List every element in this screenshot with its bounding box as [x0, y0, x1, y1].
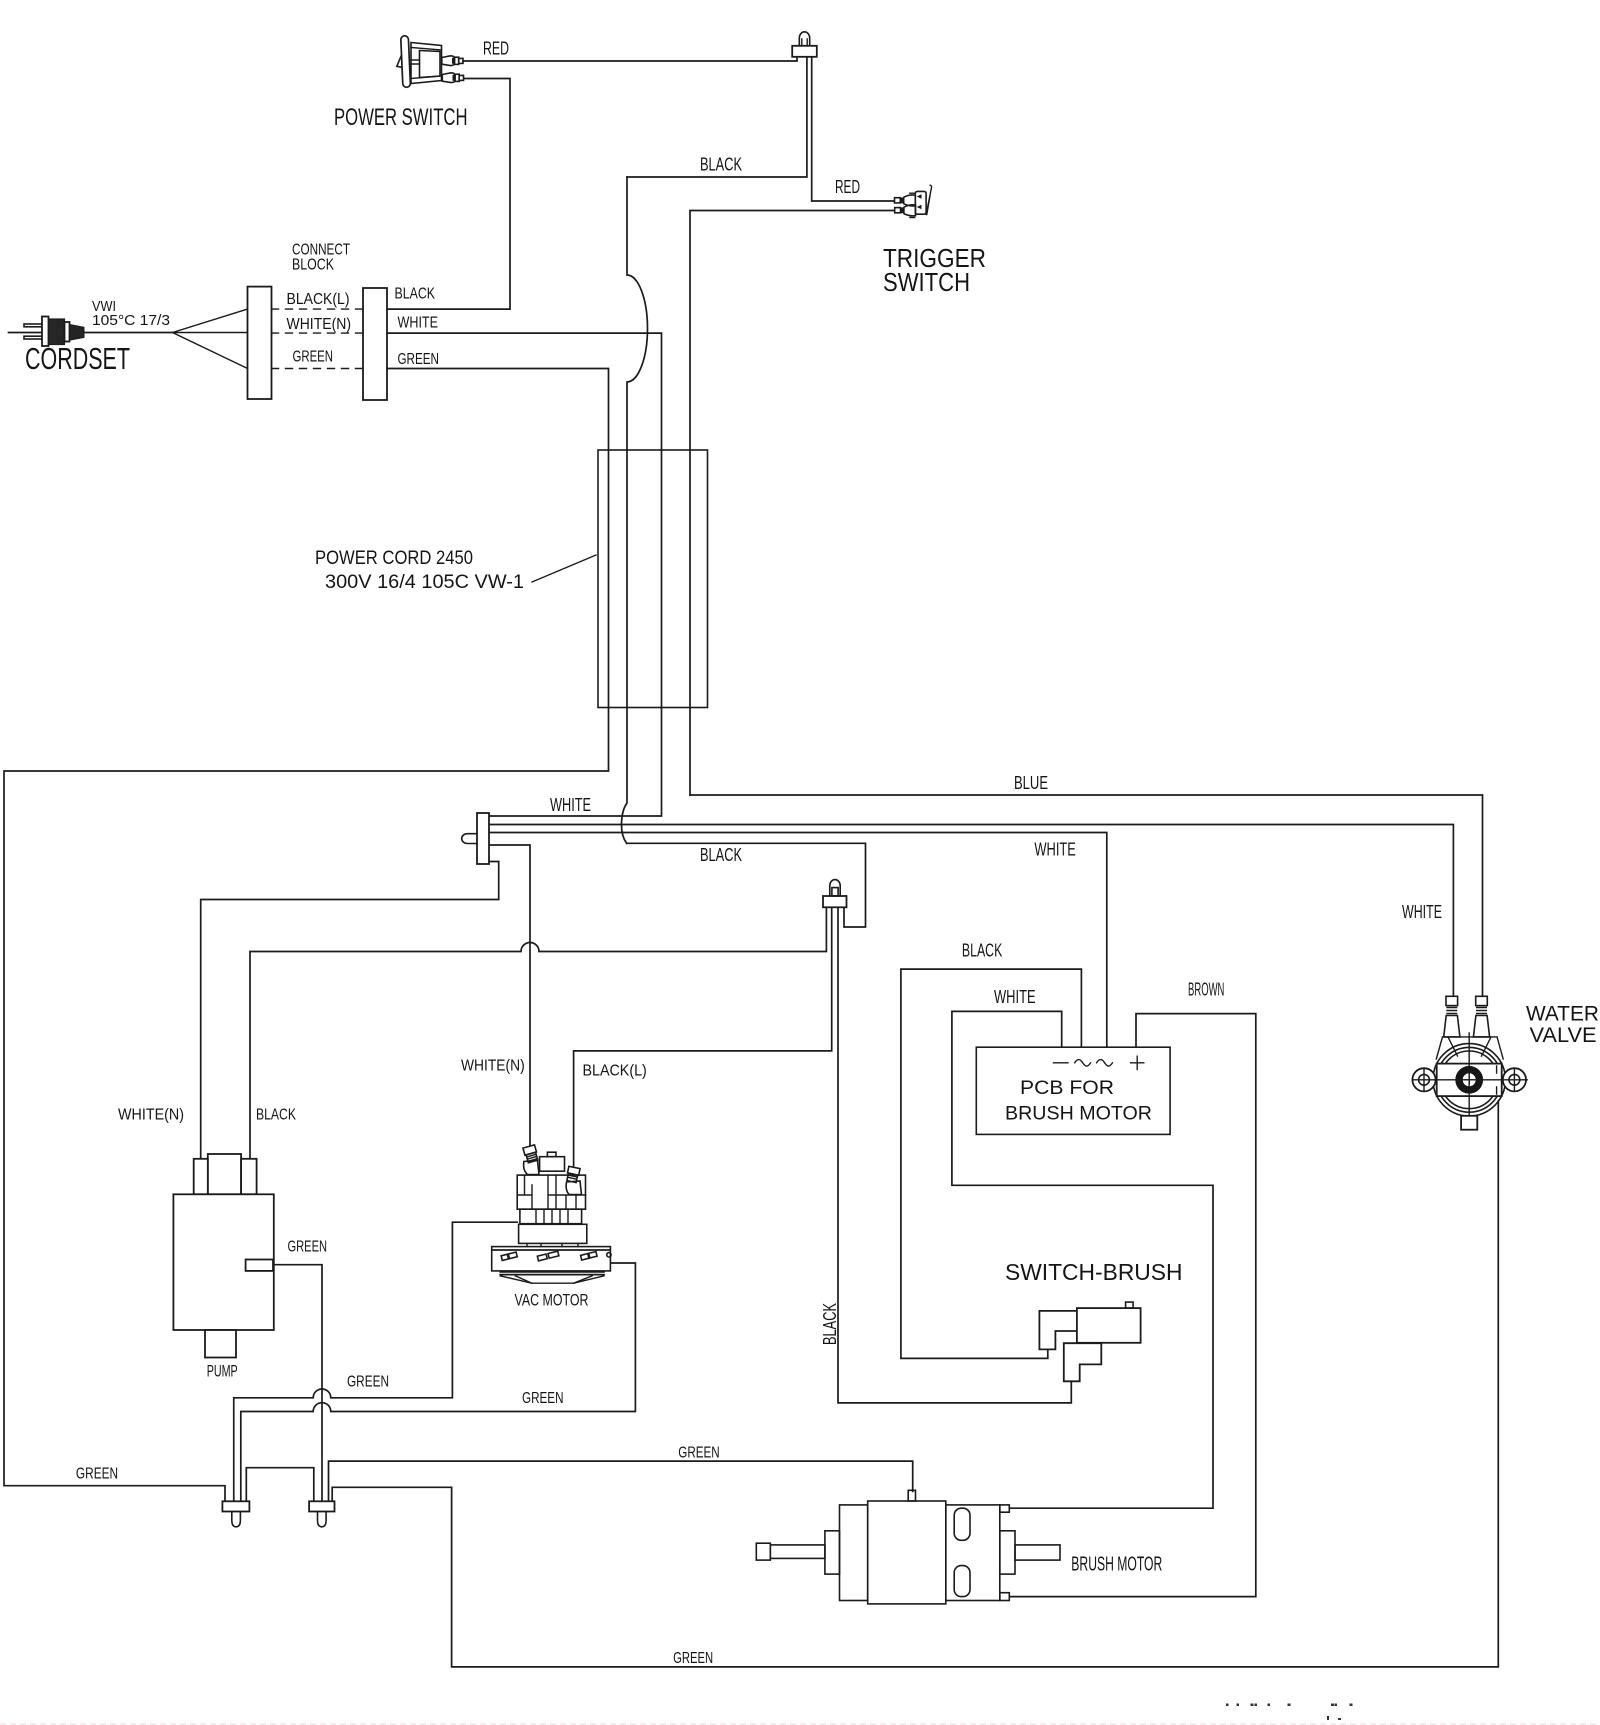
- svg-text:SWITCH: SWITCH: [883, 267, 970, 297]
- wire BLACK: mid plug cable to switch-brush: [838, 908, 1071, 1403]
- wire WHITE: PCB to brush motor: [952, 1011, 1213, 1508]
- ground plug GA: [222, 1501, 249, 1527]
- PCB dc symbol: [1054, 1062, 1069, 1064]
- svg-text:POWER SWITCH: POWER SWITCH: [334, 104, 468, 131]
- connect block right half: [363, 288, 387, 400]
- power cord sleeve rectangle: [598, 450, 708, 708]
- wire WHITE: connect block to white bus: [388, 333, 662, 816]
- wire GREEN: plug A pin1 to vac motor left (hops pump green): [234, 1222, 517, 1501]
- wire GREEN: connect block to left edge run: [4, 369, 609, 1502]
- svg-text:BRUSH MOTOR: BRUSH MOTOR: [1005, 1103, 1152, 1125]
- svg-text:GREEN: GREEN: [347, 1374, 389, 1391]
- svg-text:BROWN: BROWN: [1188, 980, 1224, 1000]
- wire BLUE: trigger run to water valve: [690, 795, 1483, 996]
- svg-text:WHITE: WHITE: [1402, 902, 1442, 922]
- svg-text:BLACK(L): BLACK(L): [583, 1063, 647, 1080]
- svg-text:WHITE(N): WHITE(N): [461, 1058, 525, 1075]
- wire BROWN: PCB to brush motor lower: [1010, 1014, 1256, 1597]
- wire GREEN: plug B to brush motor: [329, 1461, 913, 1501]
- wire BLACK: top connector pin to black run: [627, 57, 807, 177]
- wire BLACK: mid plug to pump (with hop): [250, 908, 826, 1159]
- svg-text:GREEN: GREEN: [673, 1650, 713, 1667]
- svg-text:BLACK(L): BLACK(L): [287, 291, 350, 308]
- wire GREEN: plug B to bottom run and water valve: [332, 1101, 1498, 1667]
- svg-text:CORDSET: CORDSET: [25, 341, 130, 376]
- svg-text:BLOCK: BLOCK: [292, 257, 335, 274]
- svg-text:BLACK: BLACK: [700, 155, 742, 175]
- leader line to power cord: [532, 555, 596, 582]
- dashed junction GREEN: [272, 368, 364, 370]
- wire fan-out to connect block: [173, 309, 248, 368]
- wire BLACK vertical with hop over white wire: [621, 177, 647, 843]
- svg-text:PCB FOR: PCB FOR: [1020, 1077, 1114, 1099]
- svg-text:GREEN: GREEN: [522, 1390, 564, 1407]
- svg-text:300V 16/4 105C VW-1: 300V 16/4 105C VW-1: [325, 572, 524, 593]
- PCB ac symbol: [1075, 1060, 1113, 1067]
- svg-text:WHITE: WHITE: [550, 795, 591, 815]
- wire GREEN: plug A pin2 to vac motor right (hops pump green): [241, 1263, 636, 1501]
- svg-text:GREEN: GREEN: [678, 1445, 719, 1462]
- dashed junction BLACK(L): [272, 308, 364, 310]
- wire BLACK(L): mid plug to vac motor: [574, 908, 832, 1168]
- svg-text:GREEN: GREEN: [288, 1239, 328, 1256]
- ground plug GB: [309, 1501, 334, 1527]
- vac motor M2: [492, 1145, 611, 1283]
- svg-text:WHITE(N): WHITE(N): [118, 1107, 184, 1124]
- svg-text:BLUE: BLUE: [1014, 773, 1048, 793]
- svg-text:RED: RED: [483, 39, 509, 59]
- svg-text:POWER CORD 2450: POWER CORD 2450: [315, 548, 473, 569]
- svg-text:BLACK: BLACK: [820, 1303, 840, 1345]
- trigger switch S2: [895, 185, 932, 217]
- wire BLACK bus to mid plug: [627, 843, 866, 927]
- brush motor M3: [756, 1490, 1060, 1604]
- cordset plug P1: [9, 317, 85, 347]
- pump M1: [173, 1154, 273, 1358]
- svg-text:SWITCH-BRUSH: SWITCH-BRUSH: [1005, 1259, 1183, 1285]
- svg-text:GREEN: GREEN: [76, 1466, 118, 1483]
- svg-text:WATER: WATER: [1526, 1003, 1599, 1026]
- power switch terminal T1 (upper spade): [442, 56, 455, 66]
- white bus connector J2: [462, 813, 489, 864]
- svg-text:BLACK: BLACK: [256, 1107, 296, 1124]
- wire cord from plug: [84, 332, 173, 334]
- wire BLACK: PCB to switch-brush: [901, 969, 1082, 1358]
- power switch S1: [397, 36, 442, 88]
- faint bottom edge marks: [0, 1723, 1600, 1725]
- wire GREEN: pump tab to plug B: [274, 1265, 322, 1502]
- svg-text:BRUSH MOTOR: BRUSH MOTOR: [1071, 1554, 1162, 1576]
- top connector J1: [792, 32, 817, 57]
- svg-text:RED: RED: [835, 177, 860, 197]
- footer dots: [1226, 1704, 1353, 1721]
- wire: trigger switch lower terminal down to blue run: [690, 211, 894, 796]
- svg-text:WHITE: WHITE: [398, 315, 439, 332]
- PCB plus symbol: [1131, 1056, 1144, 1069]
- mid plug J3: [823, 880, 847, 908]
- svg-text:VAC MOTOR: VAC MOTOR: [515, 1292, 589, 1310]
- wire BLACK: power switch lower terminal to connect block: [388, 79, 511, 310]
- svg-text:WHITE(N): WHITE(N): [287, 316, 352, 333]
- wire RED: power switch to top connector: [463, 57, 797, 61]
- svg-text:PUMP: PUMP: [207, 1363, 238, 1381]
- svg-text:BLACK: BLACK: [962, 941, 1002, 961]
- switch-brush S3: [1039, 1302, 1140, 1381]
- svg-text:VALVE: VALVE: [1530, 1024, 1597, 1047]
- water valve V1: [1412, 996, 1527, 1129]
- wire WHITE(N): bus to pump: [201, 862, 499, 1159]
- PCB U1: [976, 1047, 1170, 1134]
- svg-text:GREEN: GREEN: [293, 349, 334, 366]
- wire GREEN link plug A to plug B: [246, 1468, 313, 1502]
- svg-text:GREEN: GREEN: [398, 351, 439, 368]
- svg-text:BLACK: BLACK: [395, 286, 436, 303]
- svg-text:WHITE: WHITE: [994, 987, 1036, 1007]
- connect block left half: [248, 287, 272, 399]
- dashed junction WHITE(N): [272, 332, 364, 334]
- wire WHITE(N): bus to vac motor: [490, 845, 531, 1145]
- svg-text:BLACK: BLACK: [700, 845, 742, 865]
- wire WHITE: bus to water valve: [490, 825, 1454, 997]
- svg-text:105°C 17/3: 105°C 17/3: [92, 312, 170, 329]
- wire RED: top connector to trigger switch: [812, 57, 894, 201]
- svg-text:WHITE: WHITE: [1034, 840, 1076, 860]
- power switch terminal T2 (lower spade): [442, 73, 455, 83]
- wire WHITE: bus to PCB branch: [490, 833, 1107, 1048]
